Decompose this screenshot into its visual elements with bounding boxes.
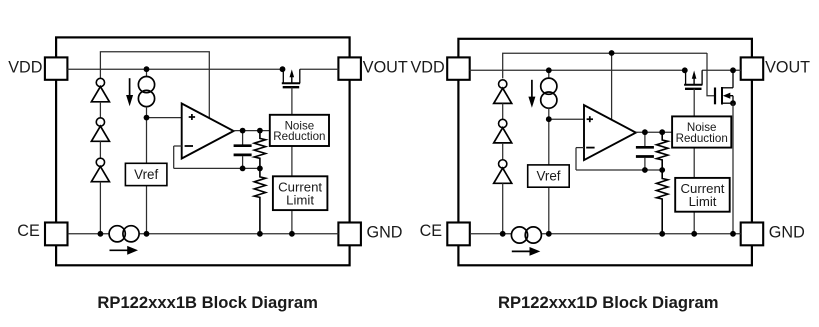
node capacitor/feedback junction — [642, 167, 648, 173]
wire node to op-amp + input — [147, 117, 182, 119]
svg-text:GND: GND — [769, 223, 805, 241]
svg-text:Reduction: Reduction — [273, 130, 325, 143]
node op-amp + input junction — [546, 116, 552, 122]
wire op-amp output to Noise Reduction — [636, 131, 672, 133]
op-amp U2 — [584, 105, 636, 160]
current source I1 — [138, 77, 154, 107]
svg-text:GND: GND — [367, 223, 403, 241]
diode D4 — [494, 80, 512, 104]
VOUT pin — [338, 57, 407, 79]
wire current source to node — [548, 108, 550, 119]
node op-amp + input junction — [144, 115, 150, 121]
node resistor/feedback junction — [659, 167, 665, 173]
wire feedback across — [174, 167, 260, 169]
CE pin — [420, 222, 470, 245]
VDD pin — [8, 57, 67, 79]
wire VDD rail left segment — [67, 68, 283, 70]
svg-text:VDD: VDD — [8, 59, 42, 77]
diode D2 — [91, 118, 109, 141]
wire Vref to CE rail — [548, 187, 550, 234]
node VDD rail / current source junction — [144, 66, 150, 72]
node output/capacitor junction — [240, 128, 246, 134]
GND pin — [741, 223, 805, 246]
svg-text:CE: CE — [17, 222, 40, 240]
node Q3 source junction — [730, 100, 736, 106]
svg-text:CE: CE — [420, 222, 443, 240]
wire branch down to op-amp top edge — [611, 53, 613, 119]
node VDD rail / Q gate drive junction — [280, 66, 286, 72]
svg-text:RP122xxx1B Block Diagram: RP122xxx1B Block Diagram — [97, 293, 317, 312]
node resistor/GND rail junction — [257, 231, 263, 237]
capacitor C2 — [636, 132, 654, 170]
node output/capacitor junction — [642, 129, 648, 135]
node gate line / GND rail junction — [289, 231, 295, 237]
node gate line / GND rail junction — [691, 231, 697, 237]
svg-text:VOUT: VOUT — [765, 59, 810, 77]
wire current source to node — [146, 107, 148, 118]
node diode chain / CE rail junction — [98, 231, 104, 237]
op-amp U1 — [182, 104, 234, 159]
GND pin — [338, 223, 402, 246]
Current Limit block — [675, 178, 730, 212]
CE pin — [17, 222, 67, 245]
wire rail to current source I1 — [146, 69, 148, 77]
resistor R4 — [657, 170, 668, 234]
current source I3 — [541, 78, 557, 108]
current source I4 — [511, 227, 541, 243]
wire op-amp - input stub — [576, 147, 584, 149]
node Vref line / CE rail junction — [546, 231, 552, 237]
node Vref line / CE rail junction — [144, 231, 150, 237]
Vref block — [528, 165, 570, 187]
node Q3 discharge / GND rail junction — [730, 231, 736, 237]
wire op-amp - input stub — [174, 145, 182, 147]
wire node to op-amp + input — [549, 118, 584, 120]
node VOUT rail junction — [730, 67, 736, 73]
transistor Q3 NMOS discharge — [715, 70, 733, 104]
svg-text:Vref: Vref — [536, 168, 560, 183]
wire feedback down — [575, 148, 577, 170]
wire diode link — [502, 143, 504, 160]
node output/resistor junction — [257, 128, 263, 134]
transistor Q1 PMOS pass — [282, 69, 300, 87]
wire node down to Vref — [548, 119, 550, 165]
wire Q3 source to GND rail — [732, 103, 734, 234]
wire feedback across — [576, 169, 662, 171]
wire Vref to CE rail — [146, 186, 148, 234]
resistor R3 — [657, 132, 668, 170]
wire diode link — [99, 102, 101, 118]
wire node down to Vref — [146, 118, 148, 164]
Vref block — [125, 163, 166, 185]
node diode chain / CE rail junction — [500, 231, 506, 237]
node output/resistor junction — [659, 129, 665, 135]
wire Q3 gate drop — [707, 53, 715, 96]
arrow current direction right — [110, 246, 139, 255]
capacitor C1 — [234, 131, 252, 169]
node VDD rail / Q gate drive junction — [682, 67, 688, 73]
resistor R1 — [254, 131, 265, 169]
current source I2 — [109, 226, 139, 242]
outer border — [458, 39, 752, 265]
transistor Q2 PMOS pass — [684, 70, 702, 89]
wire diode link — [99, 141, 101, 158]
svg-text:Limit: Limit — [286, 192, 314, 207]
Noise Reduction block — [270, 115, 329, 146]
wire diode chain to CE rail — [99, 182, 101, 234]
node top wire / op-amp branch junction — [609, 50, 615, 56]
wire VDD rail left segment — [470, 69, 686, 71]
svg-text:Limit: Limit — [689, 194, 717, 209]
VOUT pin — [741, 57, 810, 79]
wire VDD rail right segment to VOUT — [702, 69, 741, 71]
svg-text:Vref: Vref — [134, 167, 158, 182]
svg-text:Reduction: Reduction — [676, 132, 728, 145]
wire bottom rail CE to GND — [68, 233, 339, 235]
node VDD rail / current source junction — [546, 67, 552, 73]
node resistor/feedback junction — [257, 166, 263, 172]
wire Q gate down through blocks — [291, 87, 293, 234]
wire feedback down — [173, 146, 175, 168]
wire diode link — [502, 103, 504, 119]
arrow current direction right — [512, 247, 541, 256]
resistor R2 — [254, 168, 265, 233]
Noise Reduction block — [672, 116, 731, 147]
svg-text:VDD: VDD — [411, 59, 445, 77]
diode D6 — [494, 160, 512, 184]
outer border — [56, 37, 350, 265]
Current Limit block — [273, 176, 328, 210]
wire rail to current source I3 — [548, 70, 550, 78]
wire bottom rail CE to GND — [470, 233, 741, 235]
arrow current direction down — [528, 80, 535, 108]
diode D5 — [494, 119, 512, 143]
diode D3 — [91, 158, 109, 182]
wire op-amp output to Noise Reduction — [234, 130, 270, 132]
svg-text:RP122xxx1D Block Diagram: RP122xxx1D Block Diagram — [498, 293, 718, 312]
wire diode top to op-amp gate branch — [100, 52, 209, 119]
arrow current direction down — [126, 78, 133, 106]
VDD pin — [411, 57, 470, 79]
wire Q gate down through blocks — [693, 89, 695, 234]
svg-text:VOUT: VOUT — [363, 59, 408, 77]
wire diode chain to CE rail — [502, 183, 504, 234]
node resistor/GND rail junction — [659, 231, 665, 237]
wire VDD rail right segment to VOUT — [300, 68, 339, 70]
node capacitor/feedback junction — [240, 166, 246, 172]
diode D1 — [91, 78, 109, 101]
wire diode top along top to Q3 gate — [503, 53, 707, 78]
